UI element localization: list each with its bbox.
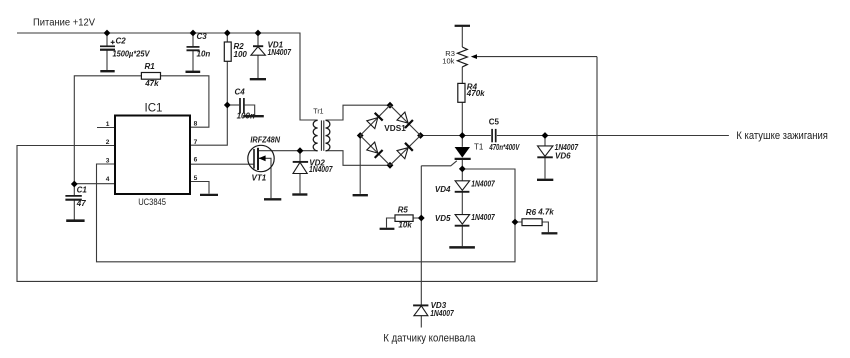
- transformer Tr1 secondary winding: [326, 120, 330, 150]
- svg-text:1N4007: 1N4007: [309, 165, 333, 174]
- svg-text:VDS1: VDS1: [384, 124, 406, 133]
- power tap bar above R3: [455, 25, 470, 27]
- wire VT1 drain to Tr1 primary bottom: [258, 150, 318, 152]
- wire Tr1 secondary top to bridge top: [326, 105, 391, 120]
- svg-text:C3: C3: [197, 32, 208, 41]
- wire R1 to pin 8: [161, 76, 209, 127]
- svg-text:C2: C2: [116, 37, 127, 46]
- ground IC pin 5: [200, 194, 218, 196]
- svg-text:1N4007: 1N4007: [268, 48, 292, 57]
- wire +12V power rail: [17, 33, 318, 120]
- svg-text:К катушке зажигания: К катушке зажигания: [736, 130, 828, 142]
- wire R3 wiper line: [475, 56, 597, 58]
- wire bridge plus to main HV line: [421, 135, 491, 137]
- wire C4 left lead: [227, 104, 239, 106]
- ground VT1 source: [264, 198, 281, 200]
- node bridge left vertex: [357, 132, 364, 139]
- wire VD3 bottom lead: [420, 316, 422, 328]
- ground VD1: [250, 78, 266, 80]
- ground VD5: [449, 246, 475, 249]
- svg-text:К датчику коленвала: К датчику коленвала: [383, 333, 476, 345]
- svg-text:VD4: VD4: [435, 185, 451, 194]
- wire VD1 leads: [257, 33, 259, 78]
- wire VD2 leads: [299, 151, 301, 194]
- node T1 cathode junction: [459, 166, 466, 173]
- resistor R6: [522, 219, 542, 226]
- svg-text:R6: R6: [526, 208, 537, 217]
- svg-text:R1: R1: [145, 62, 156, 71]
- wire R3 R4 chain: [461, 27, 463, 136]
- svg-text:VD6: VD6: [555, 152, 571, 161]
- resistor R5: [395, 215, 413, 222]
- node pin4-C1 junction: [71, 181, 78, 188]
- wire R2 top lead: [226, 33, 228, 42]
- diode bridge VDS1 frame: [360, 105, 420, 165]
- wire IC pin 6 to VT1 gate: [190, 163, 254, 165]
- svg-text:10k: 10k: [398, 221, 412, 230]
- svg-text:100n: 100n: [237, 111, 255, 120]
- wire bridge minus to ground: [359, 136, 361, 194]
- svg-text:VT1: VT1: [252, 173, 267, 182]
- ground VD6: [537, 179, 553, 181]
- wire IC pin 4 lead: [74, 183, 115, 185]
- wire VT1 source to ground: [258, 158, 271, 198]
- diode bridge arm upper-right (T to R): [405, 120, 413, 128]
- diode bridge arm lower-right (B to R): [405, 143, 413, 151]
- node C5-VD6 main line junction: [542, 132, 549, 139]
- ground R6: [542, 232, 558, 234]
- svg-text:VD5: VD5: [435, 214, 451, 223]
- svg-text:Питание +12V: Питание +12V: [33, 16, 95, 28]
- svg-text:100: 100: [234, 50, 248, 59]
- wire main HV line to ignition coil: [497, 135, 729, 137]
- svg-text:2: 2: [106, 139, 110, 146]
- wire VD6 leads: [544, 136, 546, 179]
- node rail-VD1 junction: [255, 30, 262, 37]
- node R6 loop junction: [512, 219, 519, 226]
- wire IC pin 1 stub: [97, 127, 115, 129]
- wire R1 loop pin4 side: [74, 76, 141, 184]
- ground C4: [243, 115, 264, 117]
- svg-text:IC1: IC1: [145, 103, 163, 115]
- diode VD2: [293, 161, 308, 163]
- svg-text:6: 6: [194, 157, 198, 164]
- resistor R2: [224, 42, 231, 61]
- svg-text:C5: C5: [489, 118, 500, 127]
- ground VD2: [292, 193, 307, 195]
- svg-text:UC3845: UC3845: [138, 197, 166, 207]
- node bridge right vertex: [417, 132, 424, 139]
- node bridge top vertex: [387, 102, 394, 109]
- wire C4 right lead to ground: [245, 105, 255, 115]
- transistor Q1 VT1 IRFZ48N: [248, 145, 274, 171]
- svg-text:IRFZ48N: IRFZ48N: [250, 136, 280, 145]
- wire C1 leads: [73, 184, 75, 220]
- node drain-VD2-Tr1 junction: [297, 147, 304, 154]
- svg-text:C4: C4: [235, 87, 246, 96]
- wire IC pin 3 to sense loop: [97, 164, 516, 262]
- svg-text:1: 1: [106, 121, 110, 128]
- wire VD4 VD5 chain: [461, 192, 463, 246]
- capacitor C5: [491, 129, 493, 142]
- ground C1: [66, 219, 84, 222]
- resistor R1: [141, 73, 160, 80]
- svg-text:1500µ*25V: 1500µ*25V: [113, 50, 151, 59]
- svg-text:3: 3: [106, 158, 110, 165]
- capacitor C2: [100, 45, 115, 47]
- diode VD4: [455, 181, 470, 191]
- node R5 gate-line junction: [418, 215, 425, 222]
- ground C3: [186, 71, 201, 73]
- svg-text:47: 47: [76, 199, 86, 208]
- wire R6 leads: [515, 222, 548, 232]
- wire R2 bottom to C4 node to IC pin 7: [190, 61, 227, 145]
- transformer Tr1 primary winding: [313, 120, 317, 150]
- diode VD3: [413, 304, 428, 306]
- wire Tr1 secondary bottom to bridge bottom: [326, 151, 391, 166]
- svg-text:7: 7: [194, 139, 198, 146]
- wire C3 leads: [192, 33, 194, 71]
- wire IC pin 5 to ground: [190, 182, 209, 194]
- svg-text:Tr1: Tr1: [313, 109, 323, 116]
- potentiometer R3 body: [457, 47, 467, 67]
- ground R5: [380, 228, 395, 230]
- capacitor C1: [65, 195, 81, 197]
- svg-text:10k: 10k: [442, 56, 454, 65]
- diode VD1: [253, 45, 263, 47]
- op-amp U1 IC1 UC3845 body: [115, 116, 190, 195]
- wire T1 cathode lead: [461, 160, 463, 181]
- svg-text:1N4007: 1N4007: [430, 309, 454, 318]
- wire IC pin 2 to feedback loop: [17, 57, 597, 282]
- resistor R4: [458, 83, 465, 102]
- diode VD6: [538, 146, 553, 156]
- node rail-C2 junction: [104, 30, 111, 37]
- svg-text:5: 5: [194, 175, 198, 182]
- wire T1 gate to crank sensor line: [421, 161, 457, 305]
- ground bridge minus: [353, 194, 368, 196]
- wire R5 leads: [387, 218, 422, 228]
- capacitor C2 plus sign: [111, 40, 115, 44]
- diode VD5: [455, 215, 470, 225]
- svg-text:4.7k: 4.7k: [537, 207, 554, 216]
- node R4-T1 main line junction: [459, 132, 466, 139]
- svg-text:4: 4: [106, 176, 110, 183]
- svg-text:8: 8: [194, 121, 198, 128]
- thyristor T1: [455, 147, 470, 158]
- svg-text:470n*400V: 470n*400V: [489, 143, 520, 152]
- capacitor C3: [187, 46, 200, 48]
- diode bridge arm lower-left (L to B): [375, 150, 383, 158]
- svg-text:10n: 10n: [197, 49, 211, 58]
- diode bridge arm upper-left (L to T): [375, 113, 383, 121]
- capacitor C4: [239, 98, 241, 114]
- svg-text:C1: C1: [77, 185, 88, 194]
- node rail-R2 junction: [224, 30, 231, 37]
- svg-text:T1: T1: [474, 143, 484, 152]
- svg-text:1N4007: 1N4007: [471, 213, 495, 222]
- potentiometer R3 wiper arrow: [471, 54, 477, 59]
- svg-text:47k: 47k: [144, 79, 159, 88]
- ground C2: [100, 70, 114, 72]
- svg-text:470k: 470k: [466, 89, 485, 98]
- node rail-C3 junction: [190, 30, 197, 37]
- wire T1 anode lead: [461, 136, 463, 147]
- node bridge bottom vertex: [387, 162, 394, 169]
- node C4 gate-line junction: [224, 102, 231, 109]
- svg-text:1N4007: 1N4007: [471, 180, 495, 189]
- svg-text:R5: R5: [398, 206, 409, 215]
- wire C2 leads: [106, 33, 108, 70]
- transformer Tr1 core: [320, 120, 322, 150]
